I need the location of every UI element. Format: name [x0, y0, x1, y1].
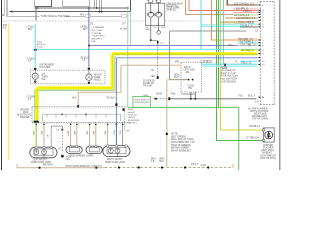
splice dot S1 [150, 39, 152, 41]
junction dot cyan tee [34, 49, 37, 51]
svg-text:C/LT GRN_1: C/LT GRN_1 [240, 42, 254, 44]
terminal box pin 5/4 [156, 0, 160, 3]
svg-text:CENTER-: CENTER- [20, 117, 30, 119]
svg-text:(off): (off) [66, 159, 70, 161]
svg-text:TURN: TURN [94, 77, 101, 79]
wire LT BLU row7 from cyan vertical [201, 24, 258, 26]
svg-text:9 BRN 4: 9 BRN 4 [243, 11, 252, 13]
wire BRN thick to connector row1 [227, 0, 257, 5]
lamp1 bulb a [34, 150, 39, 155]
wire GRN vertical to hazard [34, 90, 36, 121]
lamp3 inner [89, 148, 99, 152]
svg-text:LRPQ0: LRPQ0 [128, 117, 136, 119]
corner lamp bulb filament [267, 132, 270, 138]
pin on blue at switch top [115, 103, 117, 105]
wire into right bulb [88, 70, 90, 74]
pin on connector line [157, 41, 159, 44]
wire lamp1 ground to connector [51, 126, 62, 147]
wire YEL vertical left edge [8, 24, 10, 161]
lamp4 ground stub [117, 153, 119, 157]
lamp1 inner rect [34, 149, 53, 155]
cluster dashed box [30, 70, 105, 84]
svg-text:BLK: BLK [162, 27, 167, 29]
lamp3 terminals [89, 146, 91, 148]
vertical stub top 2 [95, 0, 98, 8]
svg-text:MDLWRGR: MDLWRGR [128, 120, 140, 122]
wire TAN to lamp3 a [89, 123, 91, 147]
ground pin G [61, 155, 63, 158]
label box W.A on L3 [85, 15, 90, 17]
wire PNK corner to connector row2 [189, 0, 258, 11]
switch contact detail dashes [43, 114, 121, 121]
svg-text:HDM: HDM [128, 109, 133, 111]
switch box left dashed edge [31, 107, 33, 123]
bulb E2 wire down [158, 18, 160, 26]
svg-text:TURN SIGNAL SW FEED: TURN SIGNAL SW FEED [41, 15, 70, 18]
wire YEL thick vertical x112 [111, 54, 114, 88]
connector pins left edge [259, 4, 261, 97]
vertical stub top 3 [98, 0, 101, 11]
wire LT BLU thick row y64.7 [202, 63, 257, 65]
svg-text:4TP: 4TP [126, 130, 131, 132]
yellow label box row [240, 49, 258, 51]
lamp1 bulb b [42, 150, 47, 155]
wire GRN vertical x127.8 [127, 7, 129, 107]
svg-text:LT BLU: LT BLU [28, 58, 36, 60]
vertical stub top 1 [93, 0, 96, 8]
wire TAN to lamp2 b [76, 123, 78, 147]
wire into left bulb [34, 70, 36, 73]
svg-text:BOLD(c): BOLD(c) [37, 44, 46, 46]
vertical stub top 4 [100, 0, 103, 11]
svg-text:4Q: 4Q [3, 28, 6, 30]
vertical green wire x216 [217, 0, 264, 141]
lamp2 inner [69, 148, 79, 152]
bulb E1 filament [150, 12, 152, 14]
svg-text:G407: G407 [201, 165, 207, 167]
wire LT BLU row short [238, 42, 258, 44]
svg-text:1-P: 1-P [255, 101, 259, 103]
svg-text:O: O [262, 5, 264, 7]
vertical green wire x218 [217, 0, 219, 107]
wire LT BLU vertical x32.6 [34, 24, 36, 70]
svg-text:8 (m): 8 (m) [37, 41, 42, 43]
wire GRN under yellow horizontal [35, 89, 115, 91]
lamp box U1 [146, 3, 165, 25]
svg-text:BROWN 5: BROWN 5 [92, 38, 103, 40]
wire YEL thick horizontal y88 [37, 86, 113, 89]
wire bulb to dot [34, 79, 36, 84]
wire L2 bus [10, 10, 131, 13]
hazard pin cap [34, 121, 39, 123]
svg-text:MOD-: MOD- [23, 112, 29, 114]
svg-text:LIGHT BRIGHT: LIGHT BRIGHT [260, 155, 277, 157]
lamp1 ground stub [43, 155, 45, 158]
svg-text:TBL: TBL [188, 88, 193, 90]
lamp4 inner rect [107, 147, 126, 154]
svg-text:INSTRUMENT: INSTRUMENT [40, 65, 56, 67]
svg-text:(UNIT COIL): (UNIT COIL) [261, 150, 274, 152]
svg-text:BROWN?: BROWN? [43, 165, 54, 167]
wire TAN corner to connector row4 [185, 0, 257, 15]
svg-text:LUDTLRLM(?): LUDTLRLM(?) [221, 81, 236, 83]
right page border [279, 0, 280, 170]
svg-text:25 SIDE BY: 25 SIDE BY [143, 80, 156, 82]
svg-text:4 B: 4 B [56, 130, 60, 132]
bus junction dots [38, 167, 40, 169]
wire LT BLU row y61 [240, 60, 258, 62]
bulb E1 wire in [150, 3, 152, 12]
svg-text:NOTE: NOTE [171, 134, 178, 136]
vertical orange wire x211 [212, 0, 258, 40]
vertical cyan wire x223 [223, 0, 225, 65]
wire DK BLU row y57 [116, 57, 257, 59]
svg-text:DK BLU: DK BLU [107, 97, 116, 99]
wire LT BLU long row from cluster left [35, 48, 258, 50]
wire GRN to lamp1 [35, 123, 37, 148]
connector line dashed x157.7 [151, 39, 158, 41]
svg-text:CORNER: CORNER [263, 145, 273, 147]
bulb E2 side tabs [155, 14, 156, 16]
flasher dashed box [181, 62, 202, 92]
svg-text:HIGH P: HIGH P [94, 74, 102, 76]
bulb E2 filament [158, 12, 160, 14]
svg-text:5/18 PPL O: 5/18 PPL O [236, 9, 248, 11]
switch box top scalloped edge [32, 106, 127, 108]
wire GRN vertical x238.8 down [238, 107, 240, 170]
wire TAN vertical x166 down [166, 80, 168, 167]
vertical cyan wire x201 [200, 0, 202, 49]
bulb E1 wire down [150, 18, 152, 26]
wire TAN pin at switch [77, 105, 79, 108]
pin on dashed line [157, 76, 159, 79]
lamp2 body [66, 146, 82, 153]
lamp4 body stadium [103, 146, 130, 157]
pin 4B [62, 129, 64, 131]
svg-text:CLUSTER: CLUSTER [40, 67, 51, 69]
junction dots on box bottom [188, 79, 190, 81]
wire TAN to lamp4 [107, 123, 109, 146]
dashed bulkhead divider [3, 20, 146, 22]
svg-text:BRN: BRN [160, 159, 165, 161]
right connector label row4 green box [233, 14, 258, 16]
svg-text:E (sb): E (sb) [37, 47, 43, 49]
wire BLK to lamp4 [122, 123, 124, 146]
svg-text:RIGHT WHEELING: RIGHT WHEELING [171, 150, 191, 152]
svg-text:BRN: BRN [151, 159, 156, 161]
svg-text:UNITS CONTROL: UNITS CONTROL [250, 111, 269, 113]
bulb E2 wire in [158, 3, 160, 12]
switch box bottom scalloped edge [32, 121, 131, 123]
wire YEL thick main [112, 52, 257, 55]
svg-text:P10: P10 [3, 25, 8, 27]
turn indicator bulb left [32, 73, 38, 79]
svg-text:phone?: phone? [128, 112, 136, 114]
green callout box [133, 96, 151, 107]
bulb E1 circle [148, 12, 153, 17]
svg-text:BLK: BLK [160, 161, 165, 163]
wire BLK dashed segment [157, 98, 168, 100]
wire L3 bus [7, 15, 40, 18]
bulb E2 circle [156, 12, 161, 17]
bulb E1 side tabs [147, 14, 148, 16]
svg-text:(BUT GREEN): (BUT GREEN) [171, 136, 186, 138]
lamp4 terminals [106, 145, 108, 147]
svg-text:(CHMSL): (CHMSL) [166, 9, 176, 11]
svg-text:EST'S: EST'S [184, 67, 191, 69]
svg-text:LEHS: LEHS [156, 94, 162, 96]
svg-text:LT BLU: LT BLU [203, 61, 211, 63]
svg-text:(TOP OF COIL): (TOP OF COIL) [260, 158, 276, 160]
wire YEL thick core [112, 52, 257, 54]
left page border [1, 0, 2, 170]
vertical yellow wire x220 [221, 0, 264, 130]
svg-text:12/16: 12/16 [248, 23, 254, 25]
black pin in switch [123, 108, 125, 110]
svg-text:BROWN 5 BRNR: BROWN 5 BRNR [171, 148, 189, 150]
label box NLZ on L3 [122, 15, 127, 17]
corner lamp pin top [263, 129, 265, 131]
wire TAN vertical x121 [78, 65, 121, 107]
turn indicator bulb right [86, 74, 92, 80]
corner lamp bulb circle [265, 131, 273, 139]
cluster pin cap left bulb [34, 68, 37, 70]
svg-text:BTRH (EQUIP): BTRH (EQUIP) [135, 102, 150, 104]
wire DK BLU vertical x116.4 into switch [115, 58, 117, 131]
svg-text:BLU: BLU [112, 131, 114, 136]
junction dot blue tee [88, 45, 90, 47]
svg-text:VCCB: VCCB [188, 86, 195, 88]
wire TAN to lamp1 [43, 123, 45, 148]
svg-text:02PGP 5: 02PGP 5 [128, 123, 138, 125]
connector C1 dashed box [260, 1, 274, 3]
olive wire corner top right [221, 22, 246, 24]
wire TAN to lamp3 b [95, 123, 97, 147]
junction dot L2 x105 [101, 11, 103, 13]
svg-text:LT BLU: LT BLU [27, 27, 35, 29]
wire YEL/BLK row5 [225, 17, 258, 19]
svg-text:YOUR PHX 2: YOUR PHX 2 [92, 36, 106, 38]
dashed link line x124.5 [124, 111, 126, 131]
wire GRN vertical x114.9 [114, 56, 116, 90]
wire TAN below lamp [150, 26, 152, 40]
svg-text:IND(C): IND(C) [94, 79, 101, 81]
wire BLK row8 [240, 26, 258, 28]
bulb glyph left [34, 75, 37, 78]
wire TAN to lamp2 a [70, 123, 72, 147]
junction dots on gray wire [190, 98, 192, 100]
svg-text:LPS FUSE: LPS FUSE [184, 69, 196, 71]
lamp1 terminals top [35, 146, 37, 148]
wire GRN horizontal y107.3 [128, 106, 239, 108]
switch contact dots [61, 114, 63, 116]
junction block box left [169, 31, 171, 80]
svg-text:MOUNTED: MOUNTED [166, 5, 178, 7]
svg-text:TURN: TURN [42, 77, 49, 79]
lamp4 bulb a [108, 148, 113, 153]
cyan horizontal y26 [201, 25, 246, 27]
svg-text:NOTE: NOTE [221, 67, 228, 69]
svg-text:RIGHT FRONT: RIGHT FRONT [107, 159, 123, 161]
lamp3 body [86, 146, 102, 153]
inline connector on tan x166 [166, 133, 168, 135]
svg-text:W-6: W-6 [72, 98, 77, 100]
cluster pin cap right bulb [88, 68, 90, 70]
bulb glyph right [87, 76, 90, 79]
wire RED short row3 [233, 11, 258, 13]
tan bus end stub [232, 164, 234, 168]
wire GRY vertical x130.3 [129, 11, 131, 45]
junction block box bottom [170, 79, 188, 81]
ground dashed line x62.4 [61, 126, 63, 152]
right connector label row7 cyan box [235, 23, 258, 25]
wire DK BLU long row from cluster [89, 45, 258, 47]
svg-text:blue dual TECH: blue dual TECH [221, 79, 238, 81]
wire BLK pin [168, 97, 170, 100]
svg-text:5/16: 5/16 [228, 45, 233, 47]
svg-text:LT GRN: LT GRN [27, 96, 36, 98]
right bulb ground dot [88, 82, 90, 84]
svg-text:4768 blue 7.0cm: 4768 blue 7.0cm [221, 76, 238, 78]
svg-text:C/LT BLU_8: C/LT BLU_8 [241, 50, 254, 52]
pin marks below switch [35, 124, 123, 125]
corner lamp box [263, 128, 274, 142]
wire TAN ground bus left [17, 167, 105, 169]
vertical leg from fuse box A [35, 7, 38, 21]
terminal box pin 4/5 [148, 0, 152, 3]
svg-text:MU?: MU? [174, 77, 180, 79]
fuse box A top-left [35, 0, 52, 7]
wire BLK arrow left end [153, 97, 157, 100]
svg-text:4P5: 4P5 [175, 61, 180, 63]
vertical stub up x130 [129, 0, 132, 11]
lamp2 terminals [70, 146, 72, 148]
left inner border line 2 [6, 0, 9, 17]
svg-text:WITH SIDE OF: WITH SIDE OF [135, 100, 151, 102]
fuse box B top-left [63, 0, 90, 7]
svg-text:BOLT 4&W: BOLT 4&W [92, 30, 104, 32]
ground G2 circle [157, 31, 161, 35]
wire DK BLU vertical x88.9 [88, 7, 90, 70]
svg-text:GRN: GRN [32, 131, 34, 136]
arrow on L2 [10, 10, 13, 12]
junction dot L1 x93 [96, 7, 98, 9]
wire BLK below lamp [158, 26, 160, 31]
junction block box top [170, 30, 247, 32]
svg-text:BLK: BLK [119, 131, 121, 136]
lamp1 terminal c [50, 146, 52, 148]
wire LT GRN core inside yellow [112, 54, 257, 56]
svg-text:CHLK-02: CHLK-02 [128, 115, 138, 117]
svg-text:4/98: 4/98 [171, 94, 176, 96]
wire L1 bus [35, 7, 128, 10]
junction dot L1 x100 [127, 7, 129, 9]
inline connector pin on cyan [224, 64, 226, 67]
wire L3 bus right part [66, 15, 127, 18]
right connector label row2 pink box [233, 8, 258, 10]
svg-text:TR_LHR: TR_LHR [143, 85, 152, 87]
corner lamp pin bottom [263, 139, 265, 141]
svg-text:P/U: P/U [80, 14, 84, 17]
svg-text:LEFT FRONT: LEFT FRONT [33, 160, 48, 162]
svg-text:BKT: BKT [83, 29, 88, 31]
svg-text:CRUISE LEFT: CRUISE LEFT [252, 116, 268, 118]
ground bus dashed right [105, 167, 233, 169]
arrow on L1 [35, 7, 38, 9]
left bulb ground dot [34, 81, 36, 83]
svg-text:7/16: 7/16 [238, 96, 243, 98]
svg-text:4/8 4/7: 4/8 4/7 [191, 164, 199, 166]
junction dot L2 x96 [98, 11, 100, 13]
wire TAN horizontal y80 stub [167, 79, 188, 81]
wire ORN label box [236, 38, 258, 40]
svg-text:HDM: HDM [174, 75, 179, 77]
svg-text:DRIVER-: DRIVER- [20, 109, 30, 111]
wire DK BLU to lamp4 [115, 123, 117, 146]
flasher legs [190, 92, 192, 99]
svg-text:IND: IND [42, 79, 46, 81]
wire OLV row6 from yellow vertical [221, 20, 258, 22]
lamp4 bulb b [115, 148, 120, 153]
junction dot L1-blue [88, 7, 90, 9]
cyan label box on row y64 left [201, 60, 212, 63]
lamp1 body stadium [30, 147, 57, 158]
left inner border line [3, 0, 6, 14]
wire YEL vertical to hazard [36, 88, 39, 121]
svg-text:LER: LER [151, 76, 156, 78]
svg-text:BKT: BKT [28, 29, 33, 31]
tan bus stub up [16, 164, 18, 168]
wire TAN horizontal y65 [121, 64, 181, 66]
svg-text:DK BLU: DK BLU [81, 57, 90, 59]
wire BLK solid to connector [170, 98, 256, 100]
